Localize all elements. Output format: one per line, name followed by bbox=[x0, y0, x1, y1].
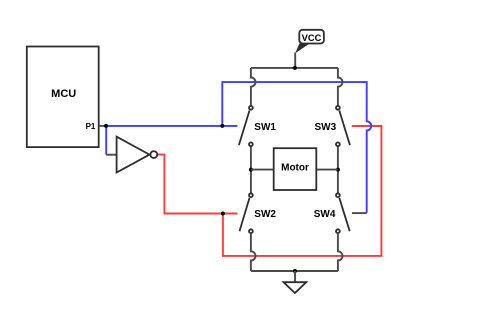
wire: black control pointer to SW4 blade bbox=[352, 212, 367, 214]
wire: red net from junction down, across bottom, up right side to SW3 control point bbox=[223, 126, 382, 256]
wire: VCC stem bbox=[294, 53, 296, 68]
ground stem bbox=[294, 271, 296, 282]
wire: left motor stub bbox=[251, 169, 274, 171]
wire: blue net drop from P1 junction to inverter input bbox=[105, 126, 107, 155]
wire: pin stub P1 bbox=[99, 125, 106, 127]
power VCC flag bbox=[299, 30, 324, 44]
svg-text:Motor: Motor bbox=[281, 162, 309, 173]
inverter U2 (NOT gate) bbox=[117, 137, 150, 173]
switch SW2 top terminal bbox=[249, 193, 253, 197]
switch SW2 blade bbox=[240, 198, 250, 231]
switch SW4 blade bbox=[339, 198, 349, 231]
switch SW1 bottom terminal bbox=[249, 142, 253, 146]
svg-text:VCC: VCC bbox=[302, 33, 322, 43]
wire: red net from inverter output to SW2 control point bbox=[157, 155, 237, 214]
inverter U2 output bubble bbox=[150, 151, 157, 158]
motor M1 box bbox=[274, 148, 317, 190]
switch SW1 blade bbox=[239, 111, 250, 146]
wire: blue net P1 horizontal to SW1 control point bbox=[106, 125, 237, 127]
node: junction at P1 bbox=[104, 124, 108, 128]
switch SW3 blade bbox=[339, 111, 350, 146]
switch SW2 bottom terminal bbox=[249, 229, 253, 233]
svg-text:SW1: SW1 bbox=[254, 122, 276, 133]
switch SW1 top terminal bbox=[249, 106, 253, 110]
ground symbol bbox=[284, 282, 307, 293]
wire: rail down to SW3 (hops blue wire) bbox=[338, 68, 343, 106]
switch SW4 bottom terminal bbox=[336, 229, 340, 233]
wire: SW4 bottom to ground rail (hops red wire) bbox=[338, 233, 343, 271]
node: junction VCC to rail bbox=[293, 66, 297, 70]
node: junction blue net at SW1 level bbox=[220, 124, 224, 128]
svg-text:SW2: SW2 bbox=[254, 209, 276, 220]
wire: black inverter input stub bbox=[106, 154, 116, 156]
wire: SW1 bottom to SW2 top (through motor junction) bbox=[250, 147, 252, 193]
node: junction red net at SW2 level bbox=[221, 212, 225, 216]
wire: SW3 bottom to SW4 top (through motor junction) bbox=[337, 147, 339, 193]
svg-text:P1: P1 bbox=[86, 122, 96, 131]
wire: blue net up over top and down right side (hops red wire) bbox=[222, 82, 371, 213]
wire: right motor stub bbox=[316, 169, 338, 171]
node: junction right motor node bbox=[336, 168, 340, 172]
wire: SW2 bottom to ground rail (hops red wire) bbox=[251, 233, 256, 271]
node: junction left motor node bbox=[249, 168, 253, 172]
svg-text:SW4: SW4 bbox=[314, 209, 336, 220]
wire: top supply rail bbox=[251, 67, 338, 69]
MCU U1 box bbox=[27, 47, 99, 148]
svg-text:MCU: MCU bbox=[51, 88, 76, 100]
power VCC flag tail bbox=[295, 43, 310, 53]
svg-text:SW3: SW3 bbox=[315, 122, 337, 133]
switch SW3 top terminal bbox=[336, 106, 340, 110]
switch SW3 bottom terminal bbox=[336, 142, 340, 146]
wire: rail down to SW1 (hops blue wire) bbox=[251, 68, 256, 106]
wire: bottom ground rail bbox=[251, 270, 338, 272]
node: junction ground bbox=[293, 269, 297, 273]
switch SW4 top terminal bbox=[336, 193, 340, 197]
